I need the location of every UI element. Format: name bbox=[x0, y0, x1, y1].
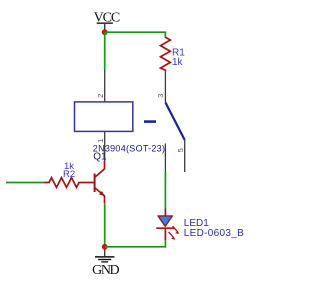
junction VCC node bbox=[102, 29, 108, 35]
relay switch pin 4 line bbox=[164, 144, 166, 173]
LED1 emission arrow upper bbox=[173, 226, 180, 234]
LED1 cathode bar bbox=[156, 227, 174, 229]
LED1 anode lead bbox=[164, 209, 166, 216]
transistor Q1 bbox=[94, 161, 105, 203]
wire emitter to ground junction bbox=[104, 203, 106, 245]
wire VCC to R1 (top horizontal) bbox=[105, 32, 166, 36]
svg-text:5: 5 bbox=[176, 148, 185, 152]
wire VCC down to relay coil pin 2 bbox=[104, 32, 106, 69]
junction GND node bbox=[102, 244, 108, 250]
resistor R2 bbox=[43, 178, 94, 188]
LED1 cathode lead bbox=[164, 228, 166, 240]
wire relay pin 4 down to LED bbox=[164, 172, 166, 209]
LED1 emission arrow lower bbox=[169, 232, 176, 240]
relay switch blade bbox=[165, 102, 184, 140]
svg-text:1: 1 bbox=[96, 139, 105, 143]
svg-text:LED-0603_B: LED-0603_B bbox=[184, 228, 244, 239]
resistor R1 bbox=[161, 37, 171, 72]
LED1 diode triangle bbox=[158, 216, 172, 227]
svg-text:Q1: Q1 bbox=[93, 151, 107, 162]
relay coil (rectangle) bbox=[75, 102, 133, 131]
svg-text:R2: R2 bbox=[63, 169, 75, 180]
svg-text:3: 3 bbox=[156, 94, 165, 98]
svg-text:2: 2 bbox=[96, 94, 105, 98]
relay coil pin 2 line bbox=[104, 70, 106, 103]
svg-text:GND: GND bbox=[92, 263, 119, 278]
wire input (left) bbox=[6, 182, 43, 184]
relay switch pin 3 line bbox=[164, 72, 166, 103]
svg-text:1k: 1k bbox=[172, 57, 184, 68]
ground GND bbox=[92, 249, 119, 278]
wire bottom horizontal to LED branch bbox=[105, 240, 166, 247]
relay coil pin 1 line bbox=[104, 132, 106, 161]
relay switch pin 5 line bbox=[184, 140, 186, 173]
relay linkage dash bbox=[144, 120, 156, 123]
power VCC bbox=[94, 10, 120, 30]
